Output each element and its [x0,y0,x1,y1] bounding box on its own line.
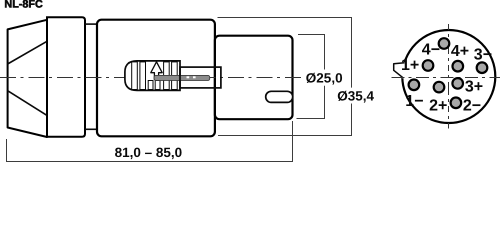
svg-text:1+: 1+ [401,57,419,74]
svg-text:Ø35,4: Ø35,4 [337,89,374,104]
svg-text:2−: 2− [463,98,481,115]
svg-text:3+: 3+ [465,78,483,95]
svg-text:NL-8FC: NL-8FC [4,0,43,10]
svg-text:4+: 4+ [451,43,469,60]
svg-text:Ø25,0: Ø25,0 [306,70,343,85]
svg-text:1−: 1− [405,93,423,110]
svg-text:81,0 – 85,0: 81,0 – 85,0 [115,145,183,160]
svg-text:4−: 4− [422,42,440,59]
svg-text:3−: 3− [474,46,492,63]
svg-text:2+: 2+ [429,98,447,115]
